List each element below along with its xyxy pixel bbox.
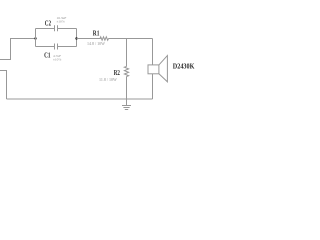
capacitor C2 plates bbox=[55, 25, 58, 31]
svg-text:C1: C1 bbox=[44, 50, 51, 59]
wire top branch leads of C2 bbox=[36, 28, 77, 30]
wire right vertical of C1/C2 parallel block bbox=[76, 29, 78, 47]
svg-text:R2: R2 bbox=[114, 68, 120, 77]
wire right vertical (top corner down to speaker and bottom rail) bbox=[152, 39, 154, 100]
resistor R1 zigzag bbox=[100, 37, 109, 40]
wire bottom rail bbox=[7, 98, 153, 100]
svg-text:C2: C2 bbox=[45, 19, 51, 28]
svg-text:D2430K: D2430K bbox=[173, 62, 195, 71]
node B junction dot (right of C1/C2) bbox=[75, 37, 77, 39]
wire input terminal 2 (left edge to bottom rail) bbox=[0, 71, 7, 100]
svg-text:±10%: ±10% bbox=[57, 20, 65, 24]
wire R2 to bottom rail bbox=[126, 77, 128, 100]
wire R1 to top-right corner bbox=[109, 38, 153, 40]
capacitor C1 plates bbox=[55, 44, 58, 50]
resistor R2 zigzag bbox=[124, 67, 128, 77]
wire bottom branch leads of C1 bbox=[36, 46, 77, 48]
speaker LS1 box bbox=[148, 65, 159, 74]
node A junction dot (left of C1/C2) bbox=[34, 37, 36, 39]
svg-text:14.8 / 10W: 14.8 / 10W bbox=[87, 41, 105, 46]
ground symbol bbox=[122, 99, 131, 110]
wire node B to R1 bbox=[77, 38, 101, 40]
svg-text:±10%: ±10% bbox=[53, 58, 61, 62]
wire left vertical of C1/C2 parallel block bbox=[35, 29, 37, 47]
speaker LS1 cone bbox=[159, 56, 168, 82]
wire input terminal 1 (left edge to node A) bbox=[0, 39, 36, 60]
svg-text:11.8 / 10W: 11.8 / 10W bbox=[99, 77, 117, 82]
svg-text:R1: R1 bbox=[93, 29, 100, 38]
wire vertical drop to R2 bbox=[126, 39, 128, 67]
